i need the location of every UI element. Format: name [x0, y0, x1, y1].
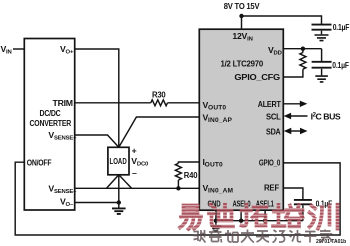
svg-text:REF: REF [264, 183, 279, 193]
svg-text:–: – [132, 168, 137, 178]
svg-text:SDA: SDA [266, 126, 281, 136]
svg-text:0.1µF: 0.1µF [333, 22, 350, 32]
svg-text:+: + [132, 145, 137, 155]
svg-text:1/2 LTC2970: 1/2 LTC2970 [221, 59, 264, 69]
svg-text:GPIO_0: GPIO_0 [259, 158, 280, 168]
svg-text:TRIM: TRIM [53, 98, 73, 108]
svg-text:GPIO_CFG: GPIO_CFG [234, 72, 280, 82]
svg-text:VDC0: VDC0 [131, 156, 149, 168]
svg-text:LOAD: LOAD [110, 157, 127, 166]
svg-text:8V TO 15V: 8V TO 15V [224, 1, 260, 11]
svg-text:ALERT: ALERT [258, 99, 282, 109]
svg-text:DC/DC: DC/DC [40, 108, 62, 118]
svg-text:I2C BUS: I2C BUS [311, 112, 341, 122]
svg-text:SCL: SCL [266, 111, 281, 121]
svg-text:VIN: VIN [1, 44, 12, 56]
svg-text:0.1µF: 0.1µF [332, 60, 349, 70]
svg-text:R30: R30 [152, 90, 166, 100]
svg-text:ON/OFF: ON/OFF [27, 157, 52, 167]
svg-text:R40: R40 [184, 170, 198, 180]
svg-text:CONVERTER: CONVERTER [30, 118, 72, 128]
